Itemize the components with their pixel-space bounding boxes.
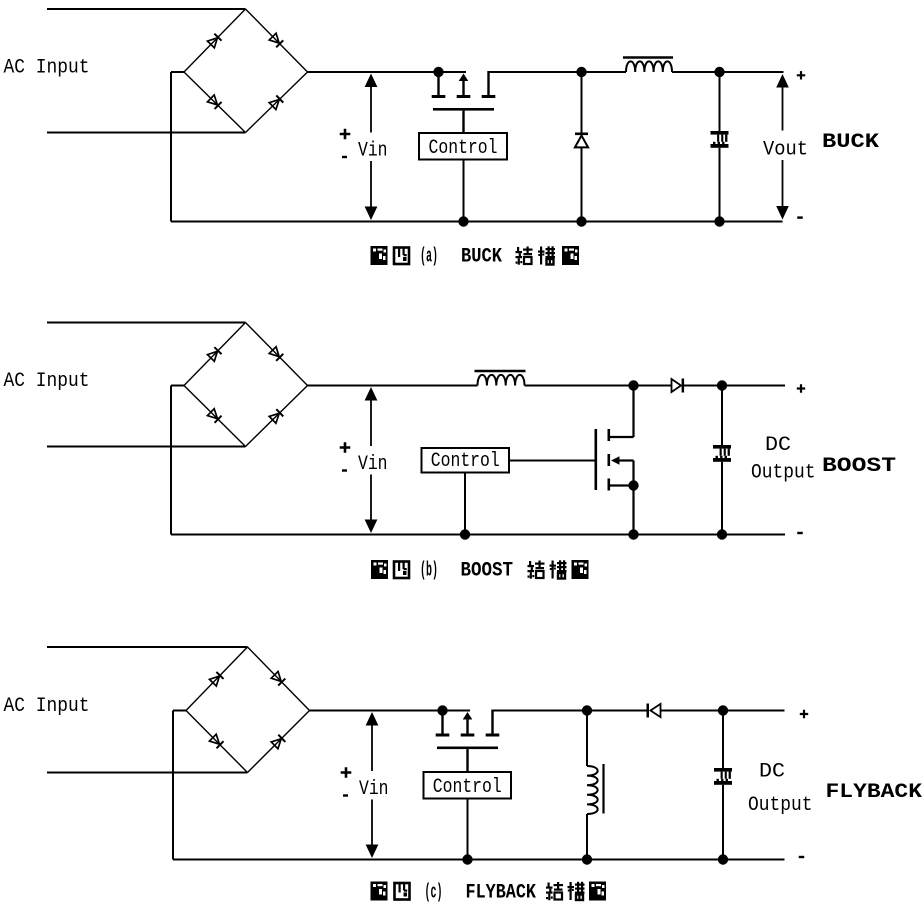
- diode D1 bridge top-left (a): [207, 34, 221, 48]
- diode D4 bridge bottom-right (c): [271, 735, 285, 749]
- wire bridge negative stub (a): [171, 71, 184, 73]
- inductor L1 flyback winding (c): [587, 711, 604, 860]
- caption char Tu (a): [371, 246, 388, 265]
- wire left return wire (b): [170, 386, 172, 535]
- svg-text:BOOST: BOOST: [822, 455, 896, 478]
- label + of Vin (b): [340, 442, 351, 453]
- wire bridge edge left-bottom (b): [184, 386, 246, 447]
- wire gate lead of Q1 (b): [509, 460, 596, 462]
- wire bridge edge left-top (c): [186, 647, 248, 711]
- svg-text:(b): (b): [420, 560, 438, 583]
- svg-text:Control: Control: [429, 137, 498, 160]
- caption char Si (c): [395, 883, 410, 900]
- Vin measurement arrow (a): [365, 74, 378, 221]
- wire AC input line 1 (a): [47, 8, 246, 10]
- caption char Tu2 (b): [572, 560, 589, 579]
- caption char Si (a): [394, 248, 409, 265]
- wire AC input line 1 (b): [47, 322, 246, 324]
- diode D5 freewheel (a): [575, 72, 588, 222]
- wire cap top lead (b): [721, 386, 723, 446]
- wire bridge edge left-top (a): [184, 9, 246, 72]
- node output node (c): [718, 705, 728, 715]
- caption char Tu (c): [371, 882, 388, 901]
- wire bridge negative stub (c): [173, 710, 186, 712]
- svg-text:FLYBACK: FLYBACK: [466, 882, 537, 905]
- wire bridge edge left-bottom (a): [184, 72, 246, 133]
- wire top rail cap-to-output (a): [720, 71, 784, 73]
- wire control-to-rail lead (c): [467, 799, 469, 860]
- wire top rail cap-to-output (b): [722, 385, 785, 387]
- wire AC input line 2 (b): [47, 446, 246, 448]
- svg-text:DC: DC: [765, 434, 791, 457]
- wire left return wire (c): [172, 711, 174, 860]
- diode D1 bridge top-left (c): [209, 672, 223, 686]
- wire AC input line 2 (c): [47, 772, 248, 774]
- node output node (a): [714, 67, 724, 77]
- node switch node (b): [628, 380, 638, 390]
- svg-text:AC Input: AC Input: [4, 695, 90, 718]
- svg-text:Vin: Vin: [358, 139, 388, 162]
- caption char Tu (b): [371, 560, 388, 579]
- label - of Vin (a): [342, 156, 347, 158]
- label - of DC output (b): [797, 532, 803, 534]
- wire bottom rail (b): [171, 534, 785, 536]
- wire bridge edge top-right (b): [246, 323, 308, 386]
- wire top rail diode-to-inductor (a): [582, 71, 627, 73]
- wire top rail winding-to-diode (c): [587, 710, 647, 712]
- label + of Vin (a): [340, 129, 351, 140]
- node winding node (c): [582, 705, 592, 715]
- capacitor C1 output (a): [711, 131, 729, 148]
- wire top rail inductor-to-cap (a): [672, 71, 720, 73]
- svg-text:AC Input: AC Input: [4, 57, 90, 80]
- svg-text:(c): (c): [425, 882, 443, 905]
- wire bottom rail (c): [173, 859, 785, 861]
- caption char Si (b): [394, 562, 409, 579]
- wire top rail MOSFET-to-winding (c): [493, 710, 588, 712]
- diode D4 bridge bottom-right (b): [269, 409, 283, 423]
- wire bridge edge bottom-right (c): [248, 711, 310, 773]
- node source node (b): [628, 480, 638, 490]
- wire top rail bridge-to-inductor (b): [308, 385, 478, 387]
- label + of DC output (b): [797, 384, 805, 392]
- svg-text:FLYBACK: FLYBACK: [826, 781, 923, 804]
- svg-text:Vout: Vout: [763, 139, 808, 162]
- caption char Gou (a): [538, 246, 555, 265]
- transistor Q1 power MOSFET (b): [595, 429, 634, 491]
- wire top rail cap-to-output (c): [723, 710, 785, 712]
- transistor Q1 power MOSFET (a): [432, 71, 496, 111]
- node control ground node (c): [462, 854, 472, 864]
- wire bottom rail (a): [171, 221, 783, 223]
- wire gate lead of Q1 (c): [466, 749, 468, 771]
- Vin measurement arrow (b): [365, 387, 378, 533]
- label - of Vout (a): [797, 216, 803, 218]
- caption char Gou (c): [568, 882, 585, 901]
- wire bridge edge bottom-right (a): [246, 72, 308, 133]
- node switch node (a): [576, 67, 586, 77]
- svg-text:BOOST: BOOST: [461, 560, 514, 583]
- caption char Tu2 (a): [562, 246, 579, 265]
- node cap ground node (c): [718, 854, 728, 864]
- svg-text:BUCK: BUCK: [461, 246, 502, 269]
- svg-text:Output: Output: [751, 462, 816, 485]
- caption char Gou (b): [550, 560, 567, 579]
- diode D2 bridge top-right (a): [269, 33, 283, 47]
- diode D2 bridge top-right (b): [269, 347, 283, 361]
- wire AC input line 2 (a): [47, 132, 246, 134]
- wire bridge negative stub (b): [171, 385, 184, 387]
- wire source-to-rail lead (b): [632, 486, 634, 535]
- diode D1 bridge top-left (b): [207, 347, 221, 361]
- node output node (b): [717, 380, 727, 390]
- wire control-to-rail lead (a): [463, 160, 465, 222]
- diode D3 bridge bottom-left (a): [207, 95, 221, 109]
- diode D4 bridge bottom-right (a): [269, 95, 283, 109]
- svg-text:(a): (a): [420, 246, 438, 269]
- label + of Vin (c): [341, 767, 352, 778]
- caption char Tu2 (c): [589, 882, 606, 901]
- wire gate lead of Q1 (a): [462, 111, 464, 133]
- wire bridge edge top-right (c): [248, 647, 310, 711]
- wire top rail diode-to-cap (c): [661, 710, 724, 712]
- diode D2 bridge top-right (c): [271, 671, 285, 685]
- label - of Vin (b): [342, 469, 347, 471]
- svg-text:Vin: Vin: [359, 778, 389, 801]
- wire top rail MOSFET-to-diode (a): [489, 71, 582, 73]
- wire drain lead of Q1 (b): [632, 386, 634, 438]
- capacitor C1 output (c): [714, 768, 732, 785]
- inductor L1 (b): [475, 371, 526, 386]
- diode D3 bridge bottom-left (c): [209, 734, 223, 748]
- wire bridge edge left-top (b): [184, 323, 246, 386]
- wire bridge edge top-right (a): [246, 9, 308, 72]
- caption char Jie (c): [546, 882, 563, 900]
- wire control-to-rail lead (b): [464, 473, 466, 535]
- svg-text:Output: Output: [748, 794, 813, 817]
- label + of Vout (a): [797, 71, 805, 79]
- node winding ground node (c): [582, 854, 592, 864]
- wire cap top lead (a): [719, 72, 721, 131]
- Vin measurement arrow (c): [366, 712, 379, 858]
- inductor L1 (a): [623, 58, 673, 73]
- wire cap top lead (c): [722, 711, 724, 769]
- wire bridge edge bottom-right (b): [246, 386, 308, 447]
- Vout measurement arrow (a): [776, 74, 789, 220]
- svg-text:DC: DC: [759, 761, 785, 784]
- transistor Q1 power MOSFET (c): [436, 710, 500, 750]
- caption char Jie (b): [528, 561, 545, 579]
- svg-text:BUCK: BUCK: [822, 131, 879, 154]
- node source ground node (b): [628, 529, 638, 539]
- caption char Jie (a): [516, 247, 533, 265]
- wire top rail inductor-to-diode (b): [525, 385, 672, 387]
- wire bridge edge left-bottom (c): [186, 711, 248, 773]
- node diode ground node (a): [576, 216, 586, 226]
- node drain node (a): [433, 67, 443, 77]
- wire top rail diode-to-cap (b): [684, 385, 722, 387]
- wire cap bottom lead (b): [721, 462, 723, 535]
- wire top rail bridge-to-MOSFET (c): [310, 710, 471, 712]
- svg-text:Control: Control: [433, 776, 502, 799]
- svg-text:Vin: Vin: [358, 453, 388, 476]
- wire top rail bridge-to-MOSFET (a): [308, 71, 467, 73]
- control block U1 (c): [424, 772, 512, 799]
- control block U1 (a): [419, 133, 507, 160]
- node cap ground node (a): [714, 216, 724, 226]
- label - of Vin (c): [343, 794, 348, 796]
- node control ground node (b): [460, 529, 470, 539]
- diode D5 boost rectifier (b): [672, 379, 685, 393]
- node drain node (c): [437, 705, 447, 715]
- control block U1 (b): [422, 448, 510, 473]
- label + of DC output (c): [800, 710, 808, 718]
- wire left return wire (a): [170, 72, 172, 222]
- wire cap bottom lead (a): [719, 148, 721, 222]
- wire cap bottom lead (c): [722, 785, 724, 860]
- node cap ground node (b): [717, 529, 727, 539]
- node control ground node (a): [458, 216, 468, 226]
- diode D5 output rectifier (c): [647, 704, 661, 718]
- capacitor C1 output (b): [713, 445, 731, 462]
- diode D3 bridge bottom-left (b): [207, 409, 221, 423]
- wire AC input line 1 (c): [47, 646, 248, 648]
- svg-text:Control: Control: [431, 450, 500, 473]
- label - of DC output (c): [799, 856, 805, 858]
- svg-text:AC Input: AC Input: [4, 370, 90, 393]
